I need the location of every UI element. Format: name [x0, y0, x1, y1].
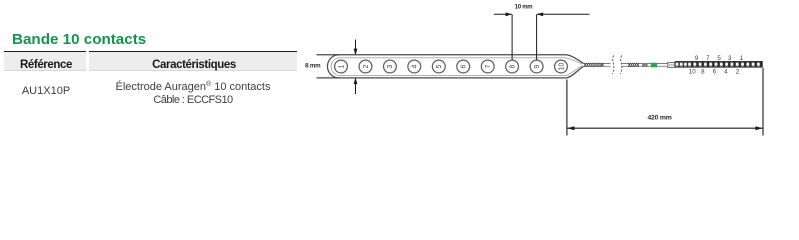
dimension 420 mm arrows	[567, 126, 763, 130]
svg-text:2: 2	[363, 64, 370, 68]
svg-text:6: 6	[713, 69, 717, 76]
title: Bande 10 contacts	[12, 31, 146, 48]
table header cell: Référence	[4, 51, 86, 71]
cable green marker block	[651, 63, 657, 68]
svg-text:8: 8	[701, 69, 705, 76]
svg-text:10: 10	[558, 63, 565, 71]
connector pin numbers top row	[695, 55, 744, 62]
svg-text:2: 2	[736, 69, 740, 76]
contact circles 1-10	[335, 60, 568, 73]
connector bar dots	[676, 63, 760, 66]
svg-text:8: 8	[509, 64, 516, 68]
svg-text:9: 9	[695, 55, 699, 62]
svg-text:10 mm: 10 mm	[515, 5, 533, 11]
dimension 420 mm extension lines	[567, 68, 763, 136]
svg-text:1: 1	[338, 64, 345, 68]
cable lines	[584, 64, 669, 67]
dimension 10 mm lines and arrows	[494, 14, 590, 60]
electrode strip outer outline	[317, 55, 584, 78]
table body: characteristics	[89, 78, 297, 107]
svg-text:10: 10	[689, 69, 696, 76]
connector bar dot plates	[675, 62, 760, 67]
svg-text:5: 5	[436, 64, 443, 68]
svg-text:420 mm: 420 mm	[647, 115, 671, 122]
connector contact bar	[675, 61, 763, 68]
table header cell: Caractéristiques	[89, 51, 297, 71]
electrode strip inner outline	[331, 58, 582, 76]
svg-text:3: 3	[728, 55, 732, 62]
svg-text:8 mm: 8 mm	[305, 62, 321, 69]
cable break symbol	[612, 56, 622, 74]
svg-text:1: 1	[740, 55, 744, 62]
cable gray marker block	[642, 63, 648, 67]
table body: reference AU1X10P	[4, 85, 88, 97]
cable hatch segment 1	[585, 63, 604, 66]
svg-text:5: 5	[717, 55, 721, 62]
dimension 8 mm arrows	[355, 40, 357, 95]
cable hatch segment 2	[629, 63, 639, 66]
contact numbers (rotated 90° CCW)	[338, 63, 565, 71]
connector sleeve	[668, 62, 675, 67]
svg-text:9: 9	[534, 64, 541, 68]
svg-text:3: 3	[387, 64, 394, 68]
svg-text:4: 4	[412, 64, 419, 68]
connector pin numbers bottom row	[689, 69, 740, 76]
svg-text:6: 6	[461, 64, 468, 68]
svg-text:7: 7	[706, 55, 710, 62]
svg-text:7: 7	[485, 64, 492, 68]
svg-text:4: 4	[724, 69, 728, 76]
